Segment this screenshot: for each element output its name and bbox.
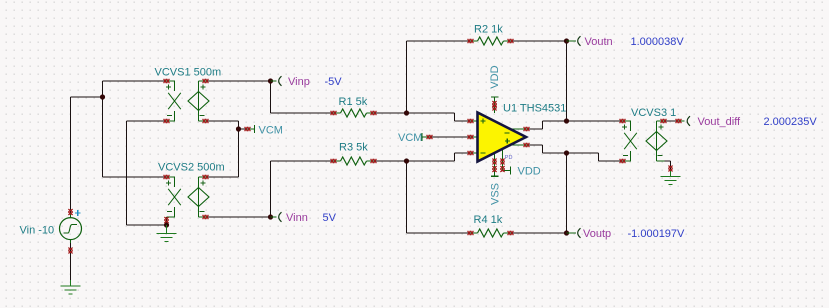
svg-text:R4 1k: R4 1k [474, 214, 503, 226]
svg-text:PD: PD [505, 155, 513, 161]
svg-text:Vout_diff: Vout_diff [698, 116, 742, 128]
svg-text:Vinn: Vinn [286, 212, 308, 224]
svg-text:VSS: VSS [490, 183, 502, 205]
svg-text:R3 5k: R3 5k [339, 142, 368, 154]
svg-text:R1 5k: R1 5k [339, 96, 368, 108]
svg-text:Voutn: Voutn [585, 36, 613, 48]
svg-text:VCM: VCM [259, 125, 283, 137]
svg-text:VCVS1 500m: VCVS1 500m [155, 67, 222, 79]
svg-text:2.000235V: 2.000235V [764, 116, 818, 128]
svg-text:VCM: VCM [398, 132, 422, 144]
svg-text:VDD: VDD [518, 166, 541, 178]
svg-text:-5V: -5V [325, 76, 343, 88]
svg-text:U1 THS4531: U1 THS4531 [503, 103, 566, 115]
svg-text:5V: 5V [323, 212, 337, 224]
svg-text:VDD: VDD [489, 65, 501, 88]
svg-text:R2 1k: R2 1k [474, 24, 503, 36]
svg-text:1.000038V: 1.000038V [631, 36, 685, 48]
svg-text:Vinp: Vinp [288, 76, 310, 88]
svg-text:VCVS2 500m: VCVS2 500m [158, 162, 225, 174]
svg-text:-1.000197V: -1.000197V [628, 228, 686, 240]
svg-text:Vin -10: Vin -10 [20, 225, 55, 237]
svg-text:Voutp: Voutp [583, 228, 611, 240]
svg-text:VCVS3 1: VCVS3 1 [631, 107, 676, 119]
